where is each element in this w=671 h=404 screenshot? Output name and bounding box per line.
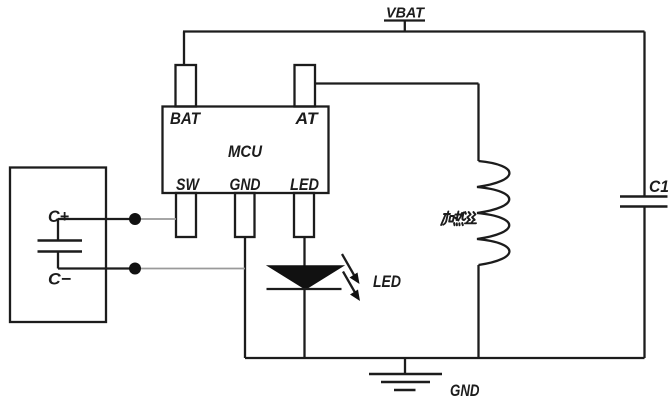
wire C+ to junction (58, 218, 135, 220)
LED emission arrow 1 (342, 254, 360, 284)
pin LED (bottom) (294, 193, 314, 237)
wire C1 bottom drop (643, 207, 645, 359)
MCU U1 body (163, 107, 329, 194)
wire C- to junction (58, 267, 135, 269)
LED D1 cathode bar (267, 288, 342, 290)
wire VBAT top rail (183, 30, 645, 32)
ground symbol bars (369, 374, 442, 390)
svg-text:LED: LED (373, 272, 401, 291)
wire LED cathode drop (303, 289, 305, 358)
net label VBAT (384, 6, 425, 32)
battery cell plates (38, 241, 83, 252)
capacitor C1 (620, 197, 668, 207)
battery block B1 (10, 168, 106, 323)
pin SW (bottom) (176, 193, 196, 237)
heating coil (加热丝) (477, 161, 509, 265)
pin BAT (top) (176, 65, 197, 107)
LED emission arrow 2 (343, 272, 360, 302)
svg-text:AT: AT (294, 109, 319, 128)
pin AT (top) (295, 65, 316, 107)
wire GND pin drop (244, 238, 246, 359)
pin GND (bottom) (235, 193, 255, 237)
svg-text:SW: SW (176, 175, 201, 194)
wire heater bottom drop (477, 265, 479, 358)
wire top rail right drop to C1 (643, 32, 645, 197)
svg-text:C+: C+ (48, 207, 69, 226)
junction node C+ (129, 213, 141, 225)
wire AT pin to heater (315, 82, 479, 84)
svg-text:GND: GND (450, 381, 480, 400)
wire LED pin to LED anode (303, 238, 305, 268)
svg-text:C1: C1 (649, 177, 669, 196)
svg-text:VBAT: VBAT (386, 6, 425, 22)
svg-text:MCU: MCU (228, 142, 263, 161)
wire top rail to BAT pin (183, 32, 185, 67)
wire junction to SW pin (gray) (135, 218, 176, 220)
wire junction to GND drop (gray) (135, 268, 245, 270)
wire bottom rail (245, 357, 645, 359)
LED D1 triangle (269, 266, 343, 289)
svg-text:GND: GND (230, 175, 261, 194)
ground symbol stub (404, 358, 406, 374)
svg-text:C−: C− (48, 270, 71, 289)
svg-text:BAT: BAT (170, 109, 201, 128)
wire cell plus stub (57, 219, 59, 240)
wire cell minus stub (57, 252, 59, 269)
svg-text:LED: LED (290, 175, 319, 194)
junction node C- (129, 263, 141, 275)
wire heater top drop (477, 84, 479, 162)
label 加热丝 (drawn strokes) (441, 212, 478, 226)
